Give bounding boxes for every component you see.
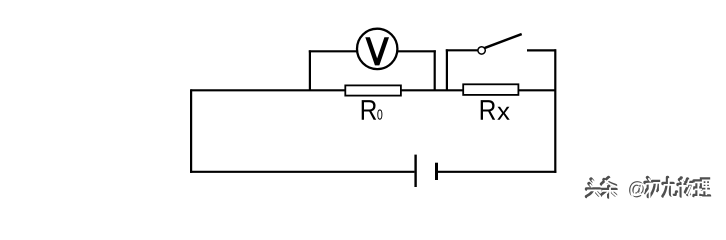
理 bbox=[694, 179, 710, 196]
wire: voltmeter branch top-left horizontal bbox=[309, 50, 358, 52]
初 bbox=[646, 179, 660, 198]
wire: switch branch right horizontal bbox=[527, 49, 556, 51]
wire: switch branch left horizontal bbox=[446, 49, 478, 51]
wire: top-right (Rx to right vertical) bbox=[518, 89, 556, 91]
九 bbox=[663, 178, 677, 197]
@ sign of watermark bbox=[629, 181, 644, 197]
label R0 bbox=[362, 100, 383, 120]
头 bbox=[587, 179, 600, 197]
resistor Rx (box) bbox=[463, 84, 518, 95]
物 bbox=[678, 178, 691, 196]
switch S (pivot circle + open blade) bbox=[478, 34, 522, 54]
wire: voltmeter branch right vertical bbox=[434, 50, 436, 91]
wire: top-left horizontal (left node to R0) bbox=[191, 89, 346, 91]
resistor R0 (box) bbox=[345, 85, 401, 95]
wire: voltmeter branch left vertical bbox=[309, 50, 311, 91]
wire: top-middle (R0 to Rx) bbox=[401, 89, 464, 91]
wire: switch branch left vertical bbox=[446, 49, 448, 91]
wire: voltmeter branch top-right horizontal bbox=[397, 50, 436, 52]
voltmeter V (circle + letter) bbox=[357, 29, 397, 69]
battery (cell): long + plate bbox=[414, 155, 416, 187]
watermark 头条@初九物理 (embossed gray/white) bbox=[587, 178, 711, 199]
wire: right vertical bbox=[554, 49, 556, 173]
条 bbox=[602, 178, 617, 198]
九 bbox=[664, 179, 678, 198]
头 bbox=[588, 180, 601, 198]
battery (cell): short - plate bbox=[435, 163, 438, 180]
初 bbox=[645, 178, 659, 197]
理 bbox=[695, 180, 711, 197]
wire: left vertical bbox=[190, 89, 192, 173]
条 bbox=[603, 179, 618, 199]
wire: bottom-right (battery - plate to right corner) bbox=[438, 171, 557, 173]
物 bbox=[679, 179, 692, 197]
label Rx bbox=[481, 100, 510, 120]
wire: bottom-left (to battery + plate) bbox=[190, 171, 414, 173]
